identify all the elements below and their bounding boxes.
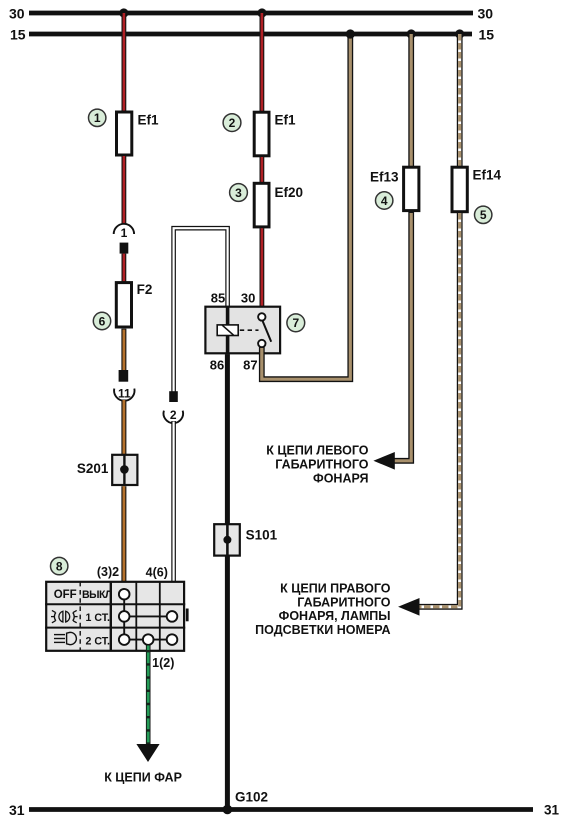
wire tan: bus 15 to fuse Ef13 bbox=[408, 34, 414, 167]
svg-text:2 СТ.: 2 СТ. bbox=[86, 636, 110, 648]
svg-text:15: 15 bbox=[479, 26, 495, 42]
svg-text:Ef1: Ef1 bbox=[275, 113, 297, 128]
svg-text:4: 4 bbox=[381, 194, 388, 208]
svg-text:11: 11 bbox=[118, 387, 131, 401]
light switch contact column line 2 bbox=[159, 582, 161, 651]
junction on bus 15 feeding fuse Ef13 bbox=[407, 29, 416, 38]
text: to left tail lamp circuit bbox=[266, 444, 368, 486]
arrow to left tail lamp circuit bbox=[373, 452, 394, 470]
svg-text:К ЦЕПИ ПРАВОГО: К ЦЕПИ ПРАВОГО bbox=[280, 582, 391, 596]
wire white: relay terminal 85 up, left and down to connector 2 bbox=[174, 228, 228, 391]
ground junction G102 on bus 31 bbox=[223, 805, 233, 815]
svg-text:5: 5 bbox=[480, 208, 487, 222]
light switch solid column separator bbox=[110, 582, 112, 651]
svg-text:15: 15 bbox=[10, 26, 26, 42]
wire orange: splice S201 to light switch contact (3)2 bbox=[121, 486, 126, 590]
wire red: fuse Ef1 to connector 1 bbox=[122, 156, 127, 225]
relay internal wire coil to terminal 86 bbox=[226, 336, 230, 355]
svg-text:ГАБАРИТНОГО: ГАБАРИТНОГО bbox=[297, 595, 390, 609]
junction on bus 30 feeding fuse Ef1 (1) bbox=[119, 8, 128, 17]
svg-text:ПОДСВЕТКИ НОМЕРА: ПОДСВЕТКИ НОМЕРА bbox=[255, 623, 390, 637]
svg-text:К ЦЕПИ ФАР: К ЦЕПИ ФАР bbox=[104, 770, 182, 784]
callout circle 1 bbox=[89, 109, 106, 126]
callout circle 5 bbox=[475, 206, 492, 223]
callout circle 7 bbox=[287, 314, 305, 332]
svg-text:30: 30 bbox=[478, 5, 494, 21]
fuse Ef1 (circle 1 branch) bbox=[117, 112, 132, 155]
connector 11 (female half, cup arc) bbox=[114, 387, 134, 401]
svg-text:1 СТ.: 1 СТ. bbox=[86, 612, 110, 624]
relay contact terminal 30 bbox=[258, 313, 265, 320]
svg-text:8: 8 bbox=[56, 560, 63, 574]
svg-text:4(6): 4(6) bbox=[146, 566, 168, 580]
icon headlight bbox=[54, 632, 76, 644]
fuse Ef20 bbox=[254, 183, 269, 227]
connector 2 male pin bbox=[169, 391, 178, 402]
splice S101 bbox=[214, 524, 240, 555]
svg-text:7: 7 bbox=[292, 316, 299, 330]
bus 15 (ignition rail) bbox=[10, 26, 494, 42]
connector 1 male pin bbox=[120, 243, 129, 254]
switch row 3 contact link bbox=[124, 639, 172, 641]
bus 30 (battery positive rail) bbox=[9, 5, 493, 21]
switch contact row2 col3 bbox=[167, 611, 178, 622]
svg-text:S101: S101 bbox=[246, 528, 278, 543]
junction on bus 15 at tan wire bbox=[346, 29, 355, 38]
relay coil bbox=[217, 325, 238, 336]
svg-text:3: 3 bbox=[235, 186, 242, 200]
wire tan/white dashed: fuse Ef14 down and left to right tail lamp circuit arrow bbox=[418, 212, 460, 607]
svg-text:30: 30 bbox=[9, 5, 25, 21]
callout circle 4 bbox=[376, 192, 393, 209]
wire red: bus 30 to fuse Ef1 (2), crossing bus 15 bbox=[29, 13, 472, 112]
light switch row separator line 2 bbox=[45, 627, 185, 629]
wire orange: fuse F2 to pin 11 bbox=[121, 329, 126, 371]
wire red: fuse Ef20 to relay terminal 30 bbox=[259, 228, 264, 313]
svg-text:6: 6 bbox=[99, 314, 106, 328]
svg-text:Ef13: Ef13 bbox=[370, 170, 399, 185]
ground bus 31 bbox=[9, 802, 560, 818]
svg-text:ВЫКЛ: ВЫКЛ bbox=[82, 589, 112, 601]
svg-text:ФОНАРЯ, ЛАМПЫ: ФОНАРЯ, ЛАМПЫ bbox=[279, 609, 391, 623]
svg-text:2: 2 bbox=[170, 408, 177, 422]
callout circle 2 bbox=[223, 114, 241, 132]
svg-text:1: 1 bbox=[94, 111, 101, 125]
relay internal wire terminal 85 to coil bbox=[226, 306, 230, 325]
svg-text:30: 30 bbox=[241, 291, 255, 306]
svg-text:31: 31 bbox=[9, 802, 25, 818]
svg-text:F2: F2 bbox=[137, 282, 153, 297]
wire black: relay terminal 86 down to splice S101 bbox=[225, 354, 230, 524]
relay movable blade bbox=[262, 320, 271, 342]
callout circle 8 bbox=[51, 557, 68, 574]
wire green/black: switch contact 1(2) down to headlamp circuit arrow bbox=[146, 645, 151, 744]
svg-text:Ef1: Ef1 bbox=[138, 112, 160, 127]
svg-text:S201: S201 bbox=[77, 461, 109, 476]
switch contact row3 col1 bbox=[119, 634, 130, 645]
splice S201 bbox=[112, 455, 137, 485]
wire red: bus 30 to fuse Ef1 (1) bbox=[122, 13, 127, 112]
text: to right tail lamp and plate lamp circuit bbox=[255, 582, 391, 637]
wire tan/white dashed: bus 15 to fuse Ef14 bbox=[457, 34, 463, 167]
relay K (parking lamp relay, circle 7) body bbox=[205, 307, 280, 354]
junction on bus 15 feeding fuse Ef14 bbox=[455, 29, 464, 38]
wire tan: fuse Ef13 down and left to left tail lamp circuit arrow bbox=[393, 212, 411, 461]
svg-text:(3)2: (3)2 bbox=[97, 565, 119, 579]
switch contact row2 col1 bbox=[119, 611, 130, 622]
svg-text:86: 86 bbox=[210, 357, 224, 372]
wire white: connector 2 to light switch contact 4(6) bbox=[171, 421, 176, 581]
svg-text:Ef20: Ef20 bbox=[275, 185, 304, 200]
svg-text:К ЦЕПИ ЛЕВОГО: К ЦЕПИ ЛЕВОГО bbox=[266, 444, 368, 458]
fuse F2 bbox=[116, 283, 131, 327]
callout circle 6 bbox=[93, 312, 110, 329]
svg-text:85: 85 bbox=[211, 291, 225, 306]
connector 11 male pin bbox=[119, 370, 129, 382]
switch contact row3 col2 bbox=[143, 634, 154, 645]
arrow to right tail lamp circuit bbox=[398, 598, 419, 616]
relay contact terminal 87 bbox=[258, 340, 265, 347]
relay actuation dashed link bbox=[240, 329, 259, 331]
switch contact ladder vertical link bbox=[123, 594, 125, 639]
svg-text:OFF: OFF bbox=[54, 589, 77, 601]
icon parking lamps bbox=[51, 610, 78, 622]
svg-text:1: 1 bbox=[121, 226, 128, 240]
fuse Ef14 bbox=[452, 167, 467, 212]
light switch row separator line 1 bbox=[45, 603, 185, 605]
wire tan: relay terminal 87 down, right, up to bus 15 bbox=[262, 34, 351, 379]
fuse Ef1 (circle 2 branch) bbox=[254, 112, 269, 156]
wire black: splice S101 to ground G102 on bus 31 bbox=[225, 556, 230, 809]
light switch S5 (circle 8) body bbox=[46, 582, 184, 651]
svg-text:1(2): 1(2) bbox=[152, 656, 174, 670]
light switch contact column line 1 bbox=[135, 582, 137, 651]
svg-text:G102: G102 bbox=[235, 789, 268, 804]
switch position tick mark bbox=[186, 609, 189, 622]
callout circle 3 bbox=[230, 184, 248, 202]
svg-text:87: 87 bbox=[243, 358, 257, 373]
wire orange: connector 11 to splice S201 bbox=[121, 400, 126, 455]
junction on bus 30 feeding fuse Ef1 (2) bbox=[257, 8, 266, 17]
switch row 2 contact link bbox=[124, 615, 172, 617]
svg-text:2: 2 bbox=[229, 116, 236, 130]
wire red: fuse Ef1 to fuse Ef20 bbox=[259, 157, 264, 184]
switch contact row3 col3 bbox=[167, 634, 178, 645]
light switch dashed column separator bbox=[79, 582, 81, 651]
wire red: pin 1 to fuse F2 bbox=[122, 254, 127, 283]
switch contact row1 col1 bbox=[119, 589, 130, 600]
svg-text:31: 31 bbox=[544, 802, 560, 817]
svg-text:ФОНАРЯ: ФОНАРЯ bbox=[313, 472, 368, 486]
svg-text:Ef14: Ef14 bbox=[473, 167, 502, 182]
fuse Ef13 bbox=[404, 167, 419, 210]
svg-text:ГАБАРИТНОГО: ГАБАРИТНОГО bbox=[275, 457, 368, 471]
connector 2 (female half, cup arc) bbox=[163, 408, 183, 423]
arrow to headlamp circuit bbox=[136, 744, 159, 762]
connector 1 (female half, dome arc) bbox=[114, 224, 134, 240]
